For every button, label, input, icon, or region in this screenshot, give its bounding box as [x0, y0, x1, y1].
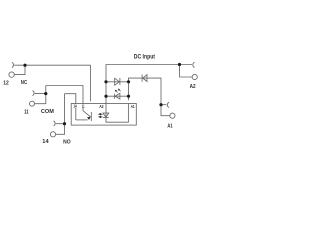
svg-text:NO: NO: [63, 139, 71, 145]
svg-text:A2: A2: [99, 104, 104, 109]
svg-text:11: 11: [24, 110, 29, 116]
svg-text:DC Input: DC Input: [134, 54, 155, 60]
svg-text:A1: A1: [131, 104, 135, 109]
svg-text:COM: COM: [41, 109, 54, 115]
svg-text:14: 14: [73, 103, 77, 108]
svg-text:14: 14: [42, 139, 49, 145]
svg-text:NC: NC: [21, 80, 28, 86]
svg-text:A1: A1: [167, 124, 173, 130]
svg-text:12: 12: [3, 80, 9, 86]
svg-text:11: 11: [82, 103, 85, 108]
svg-text:A2: A2: [190, 84, 196, 90]
